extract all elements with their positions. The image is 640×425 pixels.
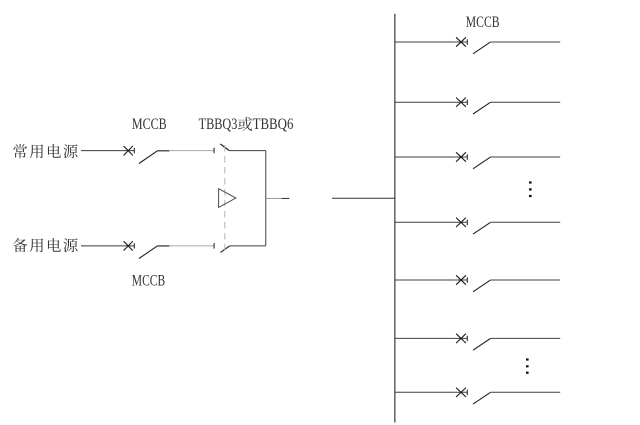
feeder 7 breaker MCCB X symbol [456,388,466,397]
feeder 3 wire from busbar [395,156,468,158]
feeder 7 breaker contact tick [466,390,468,396]
feeder 3 breaker contact tick [466,154,468,160]
feeder 6 breaker MCCB X symbol [456,334,466,343]
feeder 4 breaker contact tick [466,220,468,226]
feeder 7 wire from busbar [395,391,468,393]
wire backup source to MCCB [81,245,134,247]
ellipsis dots between feeder 6 and 7 [526,358,529,373]
feeder 1 switch blade [473,42,490,54]
feeder 6 switch blade [473,339,490,351]
feeder 2 breaker contact tick [466,100,468,106]
feeder 5 outgoing wire [490,279,560,281]
label normal source 常用电源 [13,144,77,158]
feeder 1 breaker MCCB X symbol [456,37,466,46]
wire MCCB top to ATS contact [169,150,214,152]
feeder 4 outgoing wire [490,221,560,223]
ATS backup-side blade [221,246,230,252]
breaker MCCB bottom X symbol [124,241,133,250]
breaker MCCB top switch blade [139,151,169,164]
svg-text:TBBQ6: TBBQ6 [253,116,294,133]
feeder 1 breaker contact tick [466,39,468,45]
feeder 4 switch blade [473,222,490,234]
breaker MCCB bottom switch blade [139,246,169,259]
svg-text:TBBQ3: TBBQ3 [199,116,238,133]
feeder 3 outgoing wire [490,156,560,158]
ATS bottom link wire [230,245,266,247]
ATS backup-side contact tick [213,243,215,249]
ATS output stub dark segment [282,197,290,199]
feeder 6 outgoing wire [490,337,560,339]
feeder 7 outgoing wire [490,391,560,393]
wire MCCB bottom to ATS contact [169,245,214,247]
ATS normal-side contact tick [213,148,215,154]
wire incoming feeder to busbar [332,197,395,199]
feeder 1 wire from busbar [395,41,468,43]
wire normal source to MCCB [81,150,134,152]
feeder 5 breaker contact tick [466,277,468,283]
ATS mechanical linkage dashed line [224,145,226,254]
feeder 4 breaker MCCB X symbol [456,218,466,227]
ATS actuator triangle symbol [219,189,236,208]
ATS top link wire [229,150,266,152]
breaker MCCB top X symbol [124,146,133,155]
feeder 5 switch blade [473,280,490,292]
busbar vertical [394,14,396,423]
feeder 3 switch blade [473,157,490,169]
feeder 6 wire from busbar [395,337,468,339]
feeder 2 outgoing wire [490,101,560,103]
feeder 2 breaker MCCB X symbol [456,98,466,107]
ATS output vertical wire [265,151,267,246]
feeder 6 breaker contact tick [466,336,468,342]
label backup source 备用电源 [13,238,78,252]
feeder 2 switch blade [473,102,490,114]
feeder 2 wire from busbar [395,101,468,103]
feeder 1 outgoing wire [490,41,560,43]
ATS output stub gray segment [266,197,282,199]
ATS normal-side blade [220,144,229,151]
breaker MCCB top contact tick [133,148,135,153]
feeder 5 wire from busbar [395,279,468,281]
svg-text:MCCB: MCCB [132,273,165,290]
ellipsis dots between feeder 3 and 4 [529,181,532,197]
feeder 7 switch blade [473,392,490,404]
label 或 (or) [238,117,252,131]
svg-text:MCCB: MCCB [132,116,167,133]
breaker MCCB bottom contact tick [133,243,135,248]
feeder 4 wire from busbar [395,221,468,223]
feeder 3 breaker MCCB X symbol [456,152,466,161]
svg-text:MCCB: MCCB [466,14,500,31]
feeder 5 breaker MCCB X symbol [456,275,466,284]
